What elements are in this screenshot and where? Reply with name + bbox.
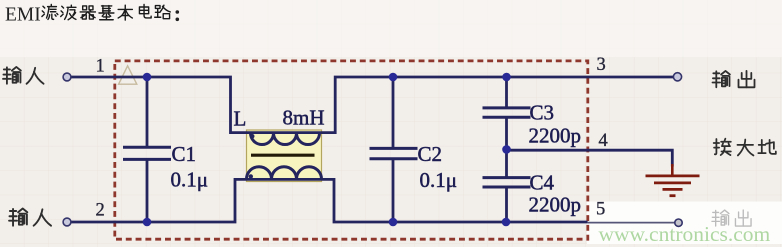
svg-text:3: 3: [597, 55, 606, 75]
svg-text:2200p: 2200p: [529, 193, 582, 217]
svg-text:L: L: [234, 107, 247, 131]
svg-text:0.1μ: 0.1μ: [420, 168, 458, 192]
svg-text:www.cntronics.com: www.cntronics.com: [599, 222, 771, 246]
svg-text:C2: C2: [418, 142, 443, 166]
svg-text:C4: C4: [530, 171, 555, 195]
svg-text:EMI: EMI: [5, 5, 41, 26]
svg-text:5: 5: [596, 200, 605, 220]
svg-text:2: 2: [96, 201, 105, 221]
svg-text:8mH: 8mH: [283, 106, 325, 130]
svg-text:C3: C3: [530, 101, 555, 125]
svg-text:2200p: 2200p: [529, 124, 582, 148]
svg-text:1: 1: [96, 57, 105, 77]
svg-text:0.1μ: 0.1μ: [171, 168, 209, 192]
svg-text:C1: C1: [172, 142, 197, 166]
svg-text:4: 4: [599, 131, 608, 151]
